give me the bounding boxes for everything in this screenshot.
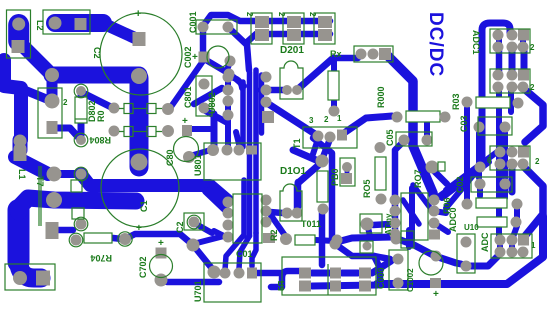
via C1 [76,219,87,230]
regulator outline [457,234,475,273]
wire right bottom Z [377,216,543,284]
svg-text:C1002: C1002 [406,268,415,292]
svg-text:R03: R03 [451,93,461,110]
component PB0 outline [340,158,355,186]
wire D802 pins [57,92,81,139]
via top diag 2 [199,103,210,114]
pad L2-2 [12,40,25,53]
capacitor C801 circle [174,137,199,162]
wire P3 to P5 [47,76,58,100]
pad IC mid right [390,195,401,206]
pad C001 [198,22,209,33]
capacitor C1 circle [101,149,179,227]
ic U802 outline [196,76,212,116]
pad IC C [495,147,506,158]
wire L1 diag into P14 [15,157,48,174]
wire diagonals from IC2 down-left [442,152,497,208]
svg-text:R0: R0 [96,110,106,122]
pad R000 [392,112,403,123]
svg-text:U701: U701 [193,280,203,302]
wire connector T trace [333,56,434,200]
pad R05 [376,194,387,205]
svg-text:ADC: ADC [480,232,490,252]
wire D201 connections [261,59,332,134]
svg-text:C801: C801 [183,86,193,108]
wire IC inter verticals [499,36,524,250]
resistor R101 body [317,171,328,202]
pad C05 [399,135,410,146]
svg-text:T7: T7 [35,176,45,187]
svg-text:2: 2 [63,98,68,107]
ic U-B outline [490,69,530,93]
svg-text:+: + [136,223,142,234]
capacitor C2 circle [100,13,182,95]
svg-text:5Я: 5Я [277,281,286,291]
diode D201 outline [280,61,303,99]
pad node A [45,68,59,82]
pad conn Rx [356,49,367,60]
component T101 outline [360,214,382,233]
diode D101 outline [280,184,302,221]
svg-text:ATiny: ATiny [384,213,393,235]
wire D101 traces [270,163,321,213]
pad node C [45,94,60,109]
pad R80 row2 [109,126,120,137]
pad D101 [316,155,329,168]
pad T101 col [261,195,272,206]
svg-text:3: 3 [309,116,314,125]
component small4 [438,162,445,171]
resistor R000 body [406,111,440,122]
svg-text:+: + [182,116,188,127]
pad X [119,233,131,245]
pad square below D201 [262,111,274,123]
pad IC A [493,30,504,41]
component bank top outline [251,13,272,44]
wire wide vertical bar C2 [130,78,149,160]
pad C02 [475,179,486,190]
wire diag to R2 pad [214,214,286,237]
wire Y junction verticals [192,77,242,148]
pad D201 [261,72,272,83]
component small3 [360,241,373,253]
resistor ADC0 body [477,217,507,227]
text DC/DC [425,12,446,77]
pad bar B [46,192,62,208]
inductor L3 outline [43,10,90,34]
diode D802 body [75,97,87,123]
via D802 bottom [76,135,86,145]
svg-text:ADC1: ADC1 [471,30,481,55]
pad col left [223,197,234,208]
pad R03 [462,97,473,108]
via ring L1 [74,167,88,181]
wire C702 trace right [167,279,219,286]
svg-text:L2: L2 [35,20,45,31]
capacitor C1002 circle [419,251,443,275]
pad R704 [71,235,82,246]
svg-text:ADC0: ADC0 [448,207,458,232]
svg-text:D1O1: D1O1 [280,166,307,177]
svg-text:2: 2 [530,43,535,52]
via ring D802b [74,133,88,147]
pad vreg [461,237,472,248]
svg-text:2: 2 [324,115,329,124]
resistor R06 body [476,198,507,208]
wire mid bar P15 right [81,174,227,211]
wire IC hooks right [482,23,543,236]
component small2 [72,208,84,219]
svg-text:RO7: RO7 [413,169,423,188]
via ring C1 [74,217,88,231]
svg-text:C80: C80 [165,149,175,166]
pad PB0 [342,162,352,172]
resistor R704 body [84,233,112,243]
wire PB0 vertical [345,168,350,172]
wire bar A pad collar [130,158,149,167]
svg-text:PB0: PB0 [330,168,340,186]
capacitor C02 outline [471,177,512,192]
pad bank2 [287,16,301,28]
svg-text:2: 2 [530,83,535,92]
wire left edge elbow [4,60,49,140]
wire U701 row trace [257,270,281,277]
svg-text:C03: C03 [459,115,469,132]
capacitor C05 outline [396,132,432,146]
transformer T7 outline [38,88,62,138]
ic U801 outline [204,143,261,180]
capacitor C001 outline [196,20,237,34]
pad row x228 [223,72,234,83]
svg-text:2: 2 [277,12,286,17]
resistor R05 body [375,157,386,190]
ic U-D outline [491,234,532,258]
ic mid right outline [401,193,428,240]
via ring X [118,232,132,246]
wire R05 pad trace [368,224,390,237]
pad IC B [493,70,504,81]
resistor R03 body [476,97,510,108]
svg-text:D201: D201 [280,45,304,56]
pad L3-1 [49,17,62,30]
pad bank bottom [299,268,311,279]
transformer T7 tall lines [39,166,41,226]
wire C801 inner pad diag [190,149,214,233]
svg-text:R000: R000 [376,86,386,108]
pad C002 sq [199,52,210,63]
svg-text:DC/DC: DC/DC [425,12,446,77]
pad square C801 [182,125,192,136]
pad R07 [426,161,439,174]
wire bundle verticals center [243,70,262,236]
wire bank left hook [271,271,299,287]
capacitor C002 circle [207,46,229,68]
wire diag P10 to C002 pad [168,61,203,111]
wire stub right of square C1 [58,227,73,234]
wire R03 C03 verticals [467,108,505,200]
resistor R2 body [295,235,315,245]
svg-text:R704: R704 [90,253,112,263]
svg-text:C1: C1 [139,200,149,212]
wire right mid IC connections [395,167,448,247]
pad misc [391,234,402,245]
svg-text:U801: U801 [193,154,203,176]
pad L1 [47,167,62,182]
capacitor C000 outline [389,250,408,290]
pad C2 bottom [131,154,148,171]
svg-text:C05: C05 [385,129,395,146]
svg-text:U10: U10 [464,223,479,232]
wire bundle bottom fan [225,233,256,270]
wire R000 left trace [344,116,392,133]
resistor R80 row2 [124,127,133,137]
pad U701 [220,268,231,279]
wire L2 pad blob [9,14,29,41]
svg-text:C702: C702 [138,256,148,278]
connector T1 outline [303,127,357,148]
capacitor C03 outline [478,117,512,135]
svg-text:+: + [192,52,198,63]
component C201 outline [184,213,204,230]
capacitor C702 circle [150,255,173,278]
pad foot [13,271,27,285]
svg-text:L1: L1 [17,169,27,180]
wire thick bar P3-P4 [52,67,139,84]
pad C1002 [430,278,441,288]
pad bank1 [255,16,269,28]
resistor R1 body [328,71,339,100]
via D802 top [76,86,86,96]
svg-text:+: + [135,8,141,20]
pad C702 [156,248,167,259]
pad node B [131,68,147,84]
wire R2 right to T junction [316,237,393,242]
via top diag 1 [199,79,210,90]
svg-text:R804: R804 [89,135,111,145]
resistor R80 row1 [124,104,133,114]
inductor L2 outline [7,10,31,58]
component C01 outline [233,194,262,243]
component bank bottom outline [282,257,376,295]
wire mid bottom Y [332,242,390,282]
via ring R704 [69,233,83,247]
svg-text:1: 1 [337,114,342,123]
pad L2-1 [12,18,25,31]
pad C801 inner [183,151,195,163]
pad T1 [313,131,324,142]
wire C05 pad links [395,122,427,234]
pad square T7 [47,121,58,134]
wire T1 area [293,60,334,240]
via ring C201 [187,215,201,229]
pad sq C1 [46,222,59,239]
wire bar B horizontal thick [19,198,137,212]
wire X crossing bottom left [113,234,224,271]
svg-text:6: 6 [487,156,492,165]
pad R06 [462,199,473,210]
svg-text:R2: R2 [269,229,279,241]
wire C15 verticals [297,186,322,265]
wire D802 pad to R80 diagonal [83,93,111,107]
svg-text:C000: C000 [376,267,386,289]
svg-text:2: 2 [535,157,540,166]
wire left bottom thick vertical and foot [19,210,42,278]
wire P14 P15 link [52,170,81,178]
foot outline [5,264,55,290]
pad R80 row1 [109,103,120,114]
svg-text:U802: U802 [207,92,217,114]
svg-text:Rx: Rx [330,49,342,59]
svg-text:C01: C01 [236,249,253,259]
wire top bus from L3 pad [55,22,135,38]
pad square top mid [133,32,146,46]
wire L2 to node A diagonal [19,42,52,75]
svg-text:C02: C02 [455,176,465,193]
pad bank3 [318,16,332,28]
ic U701 outline [204,263,261,302]
svg-text:C2: C2 [92,47,102,59]
pad C03 [474,122,485,133]
wire pad stack collar [13,140,28,150]
component small1 [71,180,82,192]
wire bottom bank row traces [312,261,391,286]
pad stack left [14,135,27,148]
via ring D802a [74,84,88,98]
ic U-C outline [490,146,530,170]
pad C000 [393,254,404,265]
pad bottom row mid [207,144,219,156]
connector Rx outline [354,46,393,62]
pad L3-2 [75,18,87,30]
pad IC D [495,235,506,246]
svg-text:T1: T1 [292,138,302,149]
pad T101b [223,232,234,243]
svg-text:C2: C2 [175,221,185,233]
svg-text:C001: C001 [188,11,198,33]
svg-text:2: 2 [245,12,254,17]
ic U-A outline [490,29,530,53]
via C201 [189,217,200,228]
pad R05b [361,218,374,231]
svg-text:1: 1 [531,241,536,250]
svg-text:+: + [433,289,439,300]
svg-text:+: + [158,238,164,249]
svg-text:T011: T011 [301,219,321,229]
svg-text:RO5: RO5 [362,179,372,198]
wire C001 hooks [203,15,330,86]
pad C002 r [225,56,236,67]
pad ADC0 [511,217,522,228]
svg-text:2: 2 [308,12,317,17]
